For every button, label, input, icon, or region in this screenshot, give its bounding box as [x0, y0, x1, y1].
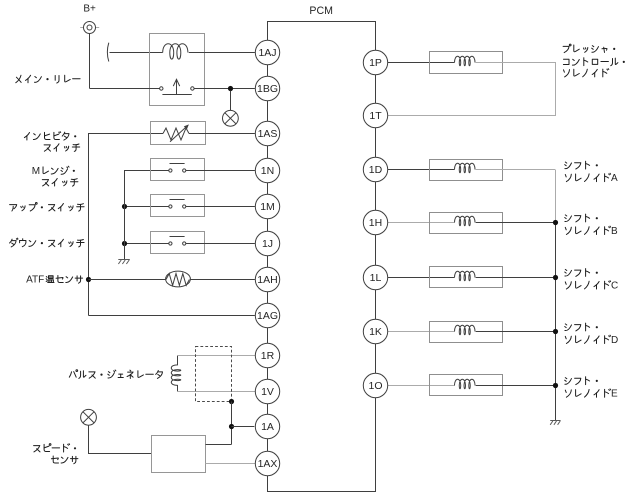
pin 1A	[255, 414, 279, 438]
shift solenoid C box	[430, 267, 503, 288]
label shift solenoid E line1	[565, 377, 598, 385]
svg-text:1AH: 1AH	[257, 274, 277, 286]
pulse generator shield (dashed)	[196, 347, 232, 402]
pin 1L	[363, 265, 387, 289]
relay K1 box	[150, 34, 205, 106]
svg-text:1J: 1J	[262, 238, 273, 250]
speed sensor box	[152, 436, 206, 473]
label main relay	[16, 75, 80, 83]
wire left bus to pin 1AG	[89, 315, 255, 317]
wire switch bus to up switch	[124, 206, 169, 208]
wire pin 1K to shift solenoid D	[387, 331, 454, 333]
wire pulse generator to pin 1R	[178, 355, 256, 357]
wire shield drain vertical	[231, 402, 233, 445]
inhibitor arrow	[170, 124, 189, 141]
connector arc on relay coil feed	[107, 43, 108, 62]
svg-text:1AX: 1AX	[258, 458, 278, 470]
indicator lamp at 1BG	[223, 110, 239, 126]
wire speed sensor to pin 1AX	[205, 463, 255, 465]
M-range contact right	[183, 169, 186, 172]
pin 1R	[255, 343, 279, 367]
svg-text:1T: 1T	[369, 110, 382, 122]
wire feed to relay coil	[110, 52, 163, 54]
inhibitor switch box	[151, 122, 206, 145]
svg-text:PCM: PCM	[309, 5, 333, 17]
junction switch bus at down switch	[122, 241, 127, 246]
svg-text:1BG: 1BG	[257, 83, 278, 95]
label shift solenoid D line2	[565, 335, 618, 346]
down switch contact right	[183, 242, 186, 245]
wire solenoid ground bus upper	[555, 170, 557, 223]
wire pin 1D to shift solenoid A	[387, 169, 454, 171]
label inhibitor switch line1	[24, 132, 76, 140]
shift solenoid E box	[430, 375, 503, 396]
ATF thermistor	[166, 271, 191, 287]
label shift solenoid D line1	[565, 323, 598, 331]
pin 1V	[255, 379, 279, 403]
wire shift solenoid B to ground bus	[476, 222, 556, 224]
label shift solenoid C line2	[565, 280, 618, 291]
pin 1P	[363, 50, 387, 74]
down switch contact bar	[170, 236, 185, 238]
label M-range switch line2	[42, 179, 78, 187]
svg-text:1D: 1D	[369, 164, 383, 176]
shift solenoid D coil	[455, 325, 476, 335]
wire M-range switch to pin 1N	[186, 170, 255, 172]
up switch contact right	[183, 205, 186, 208]
relay coil	[163, 44, 188, 59]
pin 1D	[363, 157, 387, 181]
M-range contact bar	[170, 163, 185, 165]
shift solenoid A box	[430, 160, 503, 181]
pin 1K	[363, 319, 387, 343]
wire left bus vertical	[88, 133, 90, 316]
svg-text:ATF: ATF	[26, 274, 44, 285]
label pressure control solenoid line2	[563, 58, 625, 66]
wire speed sensor to 1A junction	[206, 444, 232, 446]
wire pin 1H to shift solenoid B	[387, 222, 454, 224]
wire solenoid ground bus lower	[555, 223, 557, 420]
svg-text:1V: 1V	[261, 386, 274, 398]
label shift solenoid C line1	[565, 269, 598, 277]
label down switch	[10, 238, 85, 247]
wire shift solenoid C to ground bus	[476, 277, 556, 279]
shift solenoid A coil	[455, 163, 476, 173]
down switch box	[151, 232, 205, 254]
svg-text:1M: 1M	[260, 201, 275, 213]
pin 1AG	[255, 303, 279, 327]
wire left bus to inhibitor switch	[89, 133, 164, 135]
label shift solenoid A line2	[565, 173, 618, 184]
shift solenoid D box	[430, 322, 503, 343]
node B+ label	[83, 3, 96, 14]
svg-text:1A: 1A	[261, 421, 274, 433]
ground switch bus	[118, 260, 130, 265]
svg-text:1AJ: 1AJ	[258, 47, 276, 59]
svg-text:E: E	[611, 389, 618, 400]
shift solenoid B box	[430, 213, 503, 234]
pin 1AH	[255, 267, 279, 291]
wire lamp to speed sensor	[89, 425, 152, 453]
relay contact left	[160, 87, 163, 90]
pin 1AX	[255, 451, 279, 475]
pin 1M	[255, 194, 279, 218]
svg-text:1AS: 1AS	[258, 128, 278, 140]
svg-text:1P: 1P	[369, 57, 382, 69]
svg-text:1O: 1O	[368, 380, 382, 392]
wire junction to lamp	[230, 91, 232, 111]
wire switch bus vertical	[124, 170, 126, 259]
svg-text:B+: B+	[83, 3, 96, 14]
ground solenoid bus	[550, 421, 560, 425]
wire left bus to ATF thermistor	[89, 279, 167, 281]
label pressure control solenoid line1	[563, 44, 615, 52]
wire switch bus to M-range switch	[124, 170, 169, 172]
junction ground bus at 1K row	[553, 329, 558, 334]
svg-text:1AG: 1AG	[257, 310, 278, 322]
label pulse generator	[69, 370, 162, 379]
wire ATF thermistor to pin 1AH	[190, 279, 255, 281]
label speed sensor line1	[34, 444, 77, 452]
B+ terminal	[80, 22, 99, 34]
wire inhibitor switch to pin 1AS	[189, 133, 255, 135]
svg-text:1K: 1K	[369, 326, 382, 338]
junction ground bus at 1O row	[553, 383, 558, 388]
wire shift solenoid D to ground bus	[476, 331, 556, 333]
junction ground bus at 1L row	[553, 275, 558, 280]
svg-text:A: A	[611, 173, 618, 184]
wire pin 1O to shift solenoid E	[387, 385, 454, 387]
wire pin 1P to solenoid	[387, 62, 454, 64]
junction ground bus at 1H row	[553, 220, 558, 225]
wire solenoid return loop	[388, 63, 556, 116]
up switch contact bar	[170, 199, 185, 201]
label speed sensor line2	[51, 456, 78, 464]
shift solenoid B coil	[455, 216, 476, 226]
label inhibitor switch line2	[44, 144, 80, 152]
M-range switch box	[151, 159, 205, 181]
M-range contact left	[169, 169, 172, 172]
svg-text:1R: 1R	[261, 350, 275, 362]
inhibitor variable resistor	[163, 128, 189, 140]
wire relay coil to pin 1AJ	[189, 52, 255, 54]
junction on 1A wire	[229, 424, 234, 429]
up switch contact left	[169, 205, 172, 208]
down switch contact left	[169, 242, 172, 245]
pressure control solenoid box	[430, 52, 503, 74]
pressure control solenoid coil	[455, 56, 476, 66]
speed sensor lamp	[81, 409, 97, 425]
label shift solenoid E line2	[565, 389, 618, 400]
wire shift solenoid E to ground bus	[476, 385, 556, 387]
wire relay switch to pin 1BG	[194, 88, 255, 90]
label ATF temp sensor	[26, 274, 82, 285]
junction on 1BG wire	[228, 86, 233, 91]
pin 1J	[255, 231, 279, 255]
pin 1H	[363, 210, 387, 234]
wire shift solenoid A to ground bus	[476, 169, 556, 171]
pin 1N	[255, 158, 279, 182]
label M-range switch line1	[32, 166, 75, 177]
PCM enclosure box	[268, 22, 376, 492]
svg-text:B: B	[611, 226, 618, 237]
wire relay switch input	[89, 88, 159, 90]
junction shield drain	[229, 399, 234, 404]
pin 1AS	[255, 121, 279, 145]
junction switch bus at up switch	[122, 204, 127, 209]
pin 1O	[363, 373, 387, 397]
up switch box	[151, 195, 205, 217]
label shift solenoid A line1	[565, 161, 598, 169]
pin 1BG	[255, 76, 279, 100]
wire pulse generator to pin 1V	[178, 391, 256, 393]
svg-text:C: C	[611, 280, 618, 291]
label up switch	[10, 203, 85, 212]
junction left bus at ATF sensor	[86, 277, 91, 282]
pin 1T	[363, 103, 387, 127]
relay actuator arrow	[162, 79, 191, 94]
shift solenoid E coil	[455, 379, 476, 389]
label pressure control solenoid line3	[564, 69, 609, 77]
label shift solenoid B line1	[565, 214, 598, 222]
wire pin 1L to shift solenoid C	[387, 277, 454, 279]
wire switch bus to down switch	[124, 243, 169, 245]
label shift solenoid B line2	[565, 226, 618, 237]
svg-text:1N: 1N	[261, 165, 274, 177]
shift solenoid C coil	[455, 271, 476, 281]
wire junction to pin 1A	[232, 426, 255, 428]
pulse generator coil	[171, 356, 181, 392]
wire up switch to pin 1M	[186, 206, 255, 208]
wire B+ down to relay switch	[89, 33, 91, 88]
wire down switch to pin 1J	[186, 243, 255, 245]
svg-text:D: D	[611, 335, 618, 346]
relay contact right	[191, 87, 194, 90]
svg-text:1L: 1L	[370, 272, 382, 284]
pin 1AJ	[255, 40, 279, 64]
svg-text:1H: 1H	[369, 217, 382, 229]
svg-text:M: M	[32, 166, 40, 177]
